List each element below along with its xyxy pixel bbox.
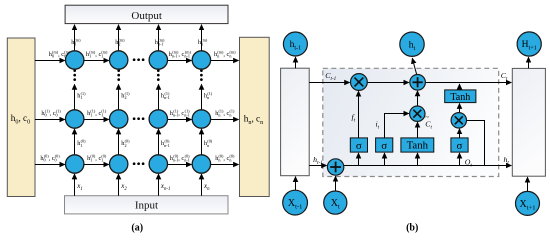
wire: input to bottom node col 3	[202, 174, 211, 196]
X(t) circle	[324, 191, 347, 214]
wire: next cell up to H(t+1) circle	[528, 57, 530, 68]
wire: X(t-1) into previous cell	[295, 177, 297, 191]
wire: output gate sigma3 up to output multiply	[459, 129, 461, 138]
wire: Tanh1 up to middle multiply	[417, 122, 419, 138]
node row 1 col 3	[192, 110, 210, 128]
wire: top node col 0 to output	[71, 25, 81, 51]
node row 1 col 0	[66, 110, 84, 128]
wire: node4 to final state row 2	[211, 153, 239, 164]
middle multiply op	[410, 106, 425, 121]
svg-text:~: ~	[425, 114, 429, 122]
ellipsis dots row 0	[133, 58, 145, 61]
svg-text:(a): (a)	[131, 222, 143, 233]
svg-text:hn-1(0): hn-1(0)	[161, 139, 170, 148]
svg-text:hn-1(m): hn-1(m)	[155, 37, 165, 46]
wire: node3 to node4 row 2	[168, 153, 192, 164]
gate Tanh1 (candidate)	[401, 138, 434, 152]
output multiply op	[451, 113, 466, 128]
vertical ellipsis dots col 1	[117, 69, 120, 81]
wire: plus to next cell, C(t)	[426, 71, 512, 82]
wire: output multiply right elbow down to h line	[467, 121, 485, 166]
wire: node1 to node2 row 0	[84, 49, 109, 60]
wire: mid node col 3 up toward top layer	[202, 84, 213, 109]
gate sigma3 (output)	[451, 138, 468, 152]
wire: initial state to node row 1	[35, 108, 65, 119]
wire: input to bottom node col 1	[119, 174, 128, 196]
node row 1 col 1	[110, 110, 128, 128]
wire: bottom node col 1 to mid node	[119, 129, 131, 155]
wire: mid node col 2 up toward top layer	[159, 84, 170, 109]
wire: previous cell up to h(t-1) circle	[295, 57, 297, 68]
node row 2 col 1	[110, 155, 128, 173]
wire: bottom node col 3 to mid node	[202, 129, 213, 155]
svg-text:σ: σ	[356, 140, 362, 152]
X(t-1) circle	[283, 190, 308, 215]
node row 2 col 2	[149, 155, 167, 173]
X(t+1) circle	[516, 191, 540, 215]
wire: top node col 2 to output	[155, 25, 165, 51]
wire: node4 to final state row 1	[211, 108, 239, 119]
initial state box h0,c0	[7, 38, 35, 197]
ellipsis dots row 1	[133, 117, 145, 120]
final state box hn,cn	[240, 37, 270, 196]
gate sigma1 (forget)	[350, 138, 367, 152]
h(t-1) circle	[283, 32, 307, 56]
vertical ellipsis dots col 0	[73, 69, 76, 81]
svg-text:Tanh: Tanh	[450, 92, 470, 103]
node row 0 col 0	[66, 51, 84, 69]
next cell rect	[512, 68, 545, 176]
node row 0 col 3	[192, 51, 210, 69]
multiply op on C line	[351, 74, 368, 91]
input box	[65, 196, 229, 214]
svg-text:hn-1(1): hn-1(1)	[161, 91, 170, 100]
wire: bottom node col 2 to mid node	[159, 129, 170, 155]
LSTM cell dashed box	[323, 68, 499, 176]
wire: Tanh2 up to C line	[459, 84, 461, 90]
vertical ellipsis dots col 2	[157, 69, 160, 81]
svg-text:(b): (b)	[406, 222, 418, 233]
wire: initial state to node row 0	[35, 49, 71, 60]
gate Tanh2 (cell output tanh)	[445, 90, 476, 103]
plus op on C line	[410, 75, 426, 91]
bottom plus op	[327, 159, 343, 175]
h(t) circle	[400, 32, 424, 56]
wire: plus up to h(t) circle	[412, 58, 416, 74]
svg-text:Input: Input	[135, 199, 158, 211]
wire: node3 to node4 row 1	[168, 108, 192, 119]
output box	[65, 5, 228, 23]
svg-text:σ: σ	[381, 140, 387, 152]
wire: X(t+1) into next cell	[527, 177, 529, 191]
wire: middle multiply up to plus	[417, 91, 419, 106]
ellipsis dots row 2	[133, 162, 145, 165]
wire: output multiply up to Tanh2	[459, 104, 461, 113]
node row 0 col 1	[110, 51, 128, 69]
wire: h line riser into gate box	[384, 153, 386, 165]
svg-text:Tanh: Tanh	[407, 140, 429, 152]
svg-text:hn-1(1), cn-1(1): hn-1(1), cn-1(1)	[170, 108, 190, 117]
wire: bottom node col 0 to mid node	[75, 129, 87, 155]
wire: input to bottom node col 2	[159, 174, 171, 196]
svg-text:hn-1(0), cn-1(0): hn-1(0), cn-1(0)	[170, 153, 190, 162]
wire: top node col 3 to output	[198, 25, 208, 51]
vertical ellipsis dots col 3	[200, 69, 203, 81]
wire: node4 to final state row 0	[211, 49, 239, 60]
wire: forget gate sigma1 up to multiply, f(t)	[351, 91, 358, 138]
wire: node3 to node4 row 0	[168, 49, 192, 60]
wire: node1 to node2 row 2	[84, 153, 109, 164]
svg-text:Output: Output	[131, 10, 162, 22]
wire: bottom h line from plus to next cell, h(t)	[344, 155, 512, 166]
node row 2 col 3	[192, 155, 210, 173]
wire: h line riser into gate box	[459, 153, 461, 165]
wire: node1 to node2 row 1	[84, 108, 109, 119]
wire: input gate sigma2 elbow to middle multiply, i(t)	[375, 114, 408, 138]
node row 0 col 2	[149, 51, 167, 69]
svg-text:σ: σ	[457, 140, 463, 152]
previous cell rect	[281, 68, 310, 176]
H(t+1) circle	[517, 32, 541, 56]
wire: input to bottom node col 0	[75, 174, 83, 196]
wire: top node col 1 to output	[115, 25, 125, 51]
gate sigma2 (input)	[376, 138, 393, 152]
wire: initial state to node row 2	[35, 153, 65, 164]
label C-tilde t	[425, 114, 432, 131]
wire: C(t-1) line into multiply	[309, 71, 349, 82]
wire: h line riser into gate box	[417, 153, 419, 165]
wire: previous cell h(t-1) into bottom plus	[309, 155, 326, 166]
wire: multiply to plus on C line	[367, 82, 408, 84]
wire: mid node col 1 up toward top layer	[119, 84, 131, 109]
wire: mid node col 0 up toward top layer	[75, 84, 87, 109]
node row 2 col 0	[66, 155, 84, 173]
svg-text:hn-1(m), cn-1(m): hn-1(m), cn-1(m)	[169, 49, 192, 58]
wire: h line riser into gate box	[358, 153, 360, 165]
node row 1 col 2	[149, 110, 167, 128]
wire: X(t) into bottom plus	[335, 176, 337, 191]
